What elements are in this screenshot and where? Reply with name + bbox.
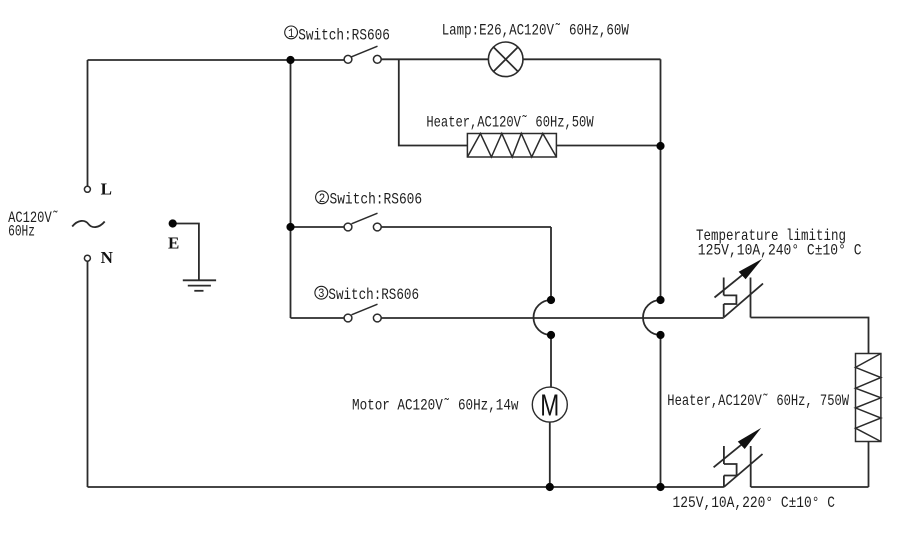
svg-text:125V,10A,220° C±10° C: 125V,10A,220° C±10° C [673,494,836,512]
svg-text:E: E [168,233,179,252]
svg-text:L: L [101,179,112,198]
svg-text:60Hz: 60Hz [8,222,35,240]
svg-text:M: M [540,388,559,423]
svg-text:Switch:RS606: Switch:RS606 [330,191,423,209]
svg-text:3: 3 [318,287,325,301]
svg-text:Switch:RS606: Switch:RS606 [328,286,419,304]
svg-text:Switch:RS606: Switch:RS606 [298,26,390,44]
svg-text:Heater,AC120V˜ 60Hz, 750W: Heater,AC120V˜ 60Hz, 750W [667,392,849,410]
svg-text:2: 2 [319,192,326,206]
svg-text:125V,10A,240° C±10° C: 125V,10A,240° C±10° C [698,242,862,260]
svg-text:1: 1 [288,27,294,41]
svg-text:Heater,AC120V˜ 60Hz,50W: Heater,AC120V˜ 60Hz,50W [426,114,593,132]
svg-text:Motor AC120V˜ 60Hz,14w: Motor AC120V˜ 60Hz,14w [352,397,519,415]
svg-text:N: N [101,248,114,267]
svg-text:Lamp:E26,AC120V˜ 60Hz,60W: Lamp:E26,AC120V˜ 60Hz,60W [442,22,630,40]
